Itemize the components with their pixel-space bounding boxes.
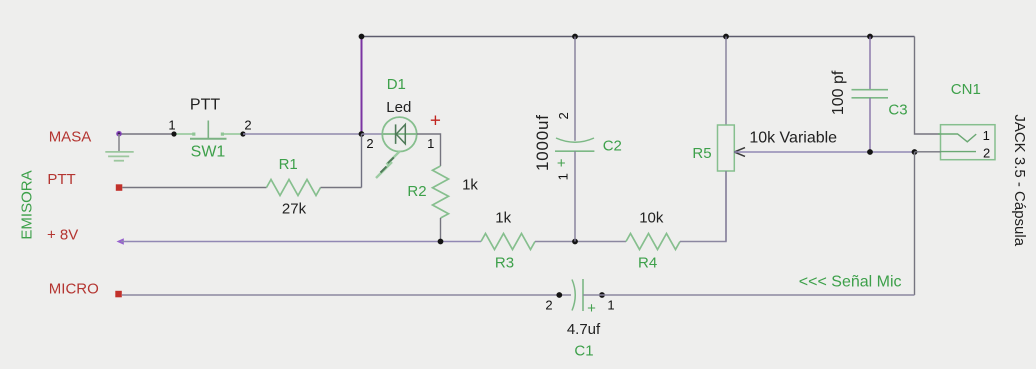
ground	[118, 134, 120, 151]
junction C3 wiper	[867, 149, 873, 155]
SW1 actuator	[207, 121, 209, 139]
junction jack pin2	[912, 149, 918, 155]
wire LED to R2 top	[417, 134, 441, 166]
svg-text:4.7uf: 4.7uf	[567, 321, 601, 338]
CN1 pin2 contact	[915, 151, 941, 153]
CN1 body	[941, 125, 996, 160]
potentiometer R5	[692, 37, 914, 242]
svg-text:+: +	[557, 155, 566, 172]
svg-text:PTT: PTT	[47, 171, 75, 188]
wire PTT to R1	[122, 187, 266, 189]
svg-text:C3: C3	[888, 101, 907, 118]
wire R5 top	[725, 37, 727, 126]
svg-text:MASA: MASA	[49, 129, 92, 146]
resistor R4	[626, 234, 680, 250]
SW1 contact lines	[174, 133, 194, 135]
svg-text:2: 2	[556, 112, 571, 119]
C3 bottom plate	[852, 97, 889, 99]
svg-text:1: 1	[983, 128, 990, 143]
capacitor C1	[545, 279, 614, 360]
pin +8V arrow	[117, 238, 124, 245]
wire R4 to R5 bottom	[680, 171, 726, 242]
wire junction down to R1 line	[361, 134, 363, 188]
wire junction to LED	[362, 133, 383, 135]
svg-text:PTT: PTT	[190, 96, 220, 113]
svg-text:100 pf: 100 pf	[830, 70, 847, 115]
junction R2 bottom	[438, 239, 444, 245]
R5 body	[718, 125, 735, 171]
svg-text:Led: Led	[386, 99, 411, 116]
wire R2 bottom	[440, 218, 442, 242]
CN1 pin1 contact	[938, 134, 976, 142]
wire MASA node to SW1 pin1	[119, 133, 174, 135]
wire C3 top	[869, 37, 871, 91]
C1 left plate (curved)	[572, 280, 575, 311]
wire rail corner down to jack pin1	[915, 37, 941, 135]
wire C2 top	[574, 37, 576, 141]
node MASA	[116, 131, 122, 137]
junction R5 top	[723, 34, 729, 40]
LED emission arrow 2	[376, 162, 392, 178]
junction LED node	[359, 131, 365, 137]
C1 right plate	[582, 279, 584, 311]
svg-text:1k: 1k	[462, 177, 478, 194]
svg-text:10k: 10k	[639, 209, 664, 226]
svg-text:2: 2	[983, 146, 990, 161]
svg-text:EMISORA: EMISORA	[18, 170, 35, 239]
wire jack vertical to micro line	[914, 152, 916, 295]
svg-text:27k: 27k	[282, 201, 307, 218]
R5 wiper arrow	[734, 148, 745, 157]
svg-text:R1: R1	[279, 156, 298, 173]
junction C2 bottom	[572, 239, 578, 245]
svg-text:C1: C1	[574, 343, 593, 360]
top rail	[362, 36, 915, 38]
wire R5 bottom	[725, 171, 727, 242]
wire purple riser	[361, 37, 363, 135]
svg-text:1: 1	[556, 173, 571, 180]
resistor R1	[267, 180, 321, 196]
C2 bottom plate	[555, 150, 594, 152]
wire wiper line	[734, 151, 914, 153]
svg-text:2: 2	[244, 118, 251, 133]
svg-text:+ 8V: + 8V	[47, 226, 78, 243]
svg-text:C2: C2	[603, 138, 622, 155]
LED cathode bar	[395, 124, 397, 143]
svg-text:10k Variable: 10k Variable	[749, 130, 837, 147]
connector CN1 jack	[912, 81, 1028, 295]
LED D1	[362, 76, 441, 178]
LED wire through body	[382, 133, 416, 135]
LED triangle	[396, 124, 405, 143]
svg-text:R2: R2	[407, 183, 426, 200]
svg-text:R5: R5	[692, 145, 711, 162]
svg-text:1k: 1k	[495, 209, 511, 226]
switch SW1	[168, 96, 251, 160]
svg-text:<<< Señal Mic: <<< Señal Mic	[799, 274, 902, 291]
LED circle	[382, 117, 416, 151]
junction top rail left	[359, 34, 365, 40]
svg-text:JACK 3.5 - Cápsula: JACK 3.5 - Cápsula	[1011, 114, 1028, 246]
pin PTT square	[116, 184, 123, 191]
LED emission arrow 1	[387, 151, 401, 165]
pin MICRO square	[115, 291, 122, 298]
wire R3 to C2 junction	[535, 241, 626, 243]
svg-text:+: +	[430, 111, 441, 132]
svg-text:R4: R4	[638, 255, 657, 272]
svg-text:1: 1	[168, 118, 175, 133]
svg-text:CN1: CN1	[951, 81, 981, 98]
wire SW1 pin2 to junction	[243, 133, 362, 135]
svg-text:D1: D1	[387, 76, 406, 93]
resistor R3	[481, 234, 535, 250]
wire R1 to riser	[321, 187, 362, 189]
svg-text:+: +	[587, 300, 596, 317]
svg-text:2: 2	[366, 136, 373, 151]
svg-text:SW1: SW1	[191, 143, 226, 160]
SW1 pin 2 dot	[240, 131, 245, 136]
wire C2 bottom	[574, 151, 576, 241]
C3 top plate	[852, 89, 889, 91]
resistor R2	[433, 166, 449, 218]
C1 pin2 dot	[556, 292, 562, 298]
capacitor C2	[533, 37, 622, 242]
svg-text:1: 1	[607, 298, 614, 313]
C1 pin1 dot	[599, 292, 605, 298]
junction C3 top	[867, 34, 873, 40]
C2 top plate (curved)	[556, 138, 594, 142]
junction C2 top	[572, 34, 578, 40]
wire +8V line	[121, 241, 481, 243]
svg-text:MICRO: MICRO	[49, 281, 99, 298]
wire C3 bottom	[869, 98, 871, 152]
svg-text:1000uf: 1000uf	[533, 114, 552, 171]
svg-text:1: 1	[427, 136, 434, 151]
wire C1 to jack riser	[583, 294, 915, 296]
svg-text:R3: R3	[495, 255, 514, 272]
svg-text:2: 2	[545, 298, 552, 313]
SW1 pin 1 dot	[171, 131, 176, 136]
wire MICRO to C1	[122, 294, 571, 296]
capacitor C3	[830, 37, 908, 155]
